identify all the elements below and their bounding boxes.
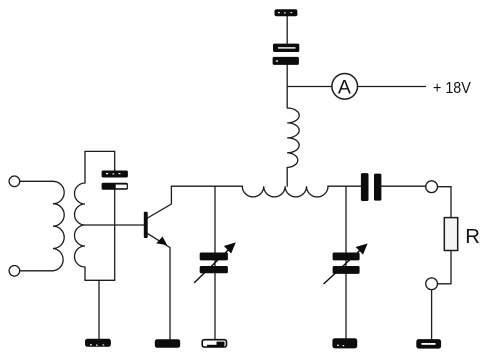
svg-text:+ 18V: + 18V <box>433 80 471 97</box>
svg-text:A: A <box>338 76 351 98</box>
svg-text:R: R <box>465 226 480 248</box>
